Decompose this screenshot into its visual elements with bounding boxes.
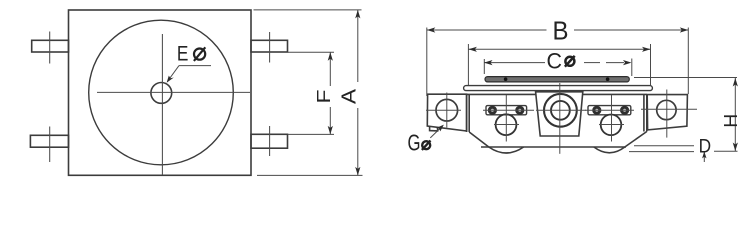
svg-text:C: C	[547, 49, 563, 74]
svg-text:E: E	[177, 42, 189, 66]
svg-text:B: B	[553, 16, 569, 46]
svg-text:H: H	[721, 114, 741, 128]
svg-text:A: A	[339, 88, 361, 104]
svg-text:F: F	[314, 90, 334, 104]
svg-text:D: D	[699, 135, 712, 157]
svg-text:G: G	[408, 130, 421, 156]
